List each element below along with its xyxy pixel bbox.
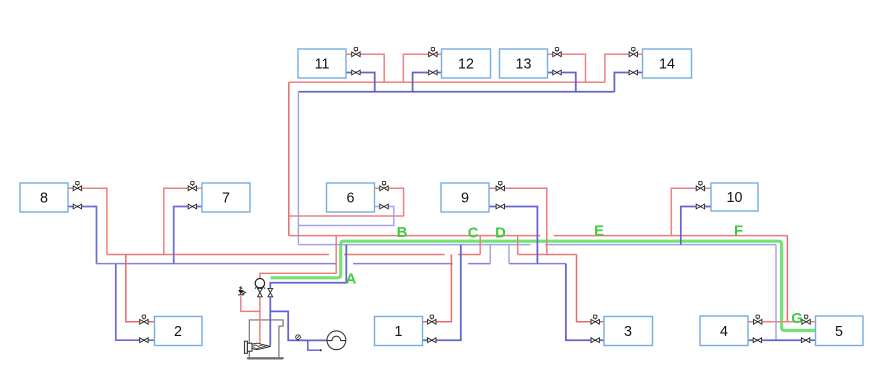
svg-text:6: 6 (347, 191, 355, 207)
supply pipe R12 (403, 54, 441, 82)
return main lower segment d (509, 263, 566, 265)
expansion vessel (327, 331, 346, 350)
return pipe R1 (423, 245, 461, 341)
boiler return drop to burner (269, 297, 271, 346)
boiler outline (249, 320, 283, 358)
supply main mid level right segment (554, 235, 788, 237)
svg-text:D: D (495, 225, 506, 241)
pump valve return (268, 288, 273, 296)
svg-text:1: 1 (395, 324, 403, 340)
lockshield valve R13 (553, 70, 561, 75)
svg-text:9: 9 (461, 191, 469, 207)
radiator R12 (442, 49, 491, 78)
return connector D (508, 245, 510, 264)
thermostatic valve R14 (629, 48, 637, 57)
thermostatic valve R9 (496, 182, 504, 191)
svg-text:4: 4 (720, 324, 728, 340)
svg-text:5: 5 (835, 324, 843, 340)
thermostatic valve R11 (352, 48, 360, 57)
return pipe R14 (614, 73, 642, 92)
lockshield valve R10 (696, 204, 704, 209)
return riser left (297, 92, 299, 245)
lockshield valve R14 (629, 70, 637, 75)
boiler supply drop to burner (259, 288, 261, 346)
svg-text:8: 8 (40, 191, 48, 207)
supply rail R4 R5 (748, 321, 816, 323)
burner flame (252, 343, 271, 350)
thermostatic valve R5 (802, 315, 810, 324)
radiator R4 (700, 316, 748, 346)
lockshield valve R12 (429, 70, 437, 75)
return pipe R7 (174, 207, 202, 264)
svg-text:B: B (397, 225, 408, 241)
drain end dot (320, 349, 322, 351)
supply pipe R2 (126, 255, 155, 322)
thermostatic valve R10 (696, 182, 704, 191)
svg-text:F: F (734, 224, 743, 240)
thermostatic valve R2 (140, 315, 148, 324)
return main mid level left segment (298, 244, 530, 246)
supply pipe R10 (671, 188, 711, 235)
supply pipe R8 (68, 188, 107, 254)
supply connector D (517, 236, 519, 255)
lockshield valve R1 (428, 338, 436, 343)
supply main lower segment a (107, 254, 329, 256)
radiator R13 (500, 49, 548, 78)
svg-text:2: 2 (174, 324, 182, 340)
thermostatic valve R7 (188, 182, 196, 191)
boiler supply riser (260, 236, 336, 279)
svg-text:14: 14 (659, 57, 675, 73)
burner motor cap (244, 341, 247, 353)
supply pipe R1 (423, 255, 452, 322)
lockshield valve R2 (140, 338, 148, 343)
thermostatic valve R1 (428, 315, 436, 324)
supply pipe R9 (489, 188, 547, 254)
return pipe R10 (681, 207, 711, 245)
supply pipe R3 (577, 255, 605, 322)
return pipe R2 (116, 264, 155, 341)
radiator R9 (441, 183, 489, 212)
safety valve (238, 287, 246, 295)
svg-text:13: 13 (516, 57, 532, 73)
pressure gauge (296, 335, 301, 340)
thermostatic valve R4 (754, 315, 762, 324)
supply pipe R6 (289, 188, 404, 216)
supply main mid level left segment (289, 235, 541, 237)
return main lower segment a (97, 263, 337, 265)
supply main lower segment b (344, 254, 445, 256)
boiler base (248, 357, 283, 359)
svg-text:12: 12 (458, 57, 474, 73)
return pipe R3 (566, 264, 604, 341)
svg-text:11: 11 (315, 57, 330, 73)
svg-text:10: 10 (727, 190, 743, 206)
svg-text:C: C (468, 225, 479, 241)
svg-text:G: G (791, 311, 803, 327)
return main lower segment b (353, 263, 453, 265)
radiator R8 (20, 183, 68, 212)
thermostatic valve R6 (380, 182, 388, 191)
return main mid level right segment (545, 244, 776, 246)
thermostatic valve R3 (591, 315, 599, 324)
thermostatic valve R13 (553, 48, 561, 57)
return pipe R11 (346, 73, 375, 92)
lockshield valve R3 (591, 338, 599, 343)
expansion pipe (270, 311, 327, 340)
return pipe R6 (298, 207, 393, 226)
drain pipe (308, 340, 320, 350)
supply pipe R11 (346, 54, 384, 82)
return riser R4 R5 (775, 245, 777, 341)
green index circuit pipe A-B-C-D-E-F-G (271, 241, 816, 330)
lockshield valve R7 (188, 204, 196, 209)
svg-text:3: 3 (624, 324, 632, 340)
supply main top row (289, 81, 605, 83)
pump (255, 279, 264, 288)
boiler return riser (270, 245, 346, 288)
supply connector C (479, 236, 481, 255)
radiator R14 (643, 49, 692, 78)
supply pipe R14 (605, 54, 643, 82)
radiator R3 (604, 317, 653, 346)
supply pipe R13 (548, 54, 586, 82)
pump valve supply (258, 288, 263, 296)
supply main lower segment c (458, 254, 480, 256)
thermostatic valve R12 (429, 48, 437, 57)
radiator R10 (711, 183, 758, 211)
radiator R2 (155, 317, 203, 346)
lockshield valve R9 (496, 204, 504, 209)
svg-text:E: E (594, 224, 604, 240)
radiator R7 (202, 183, 250, 212)
radiator R1 (375, 317, 423, 346)
return main lower segment c (468, 263, 490, 265)
return pipe R8 (68, 207, 97, 264)
radiator R6 (327, 183, 375, 212)
lockshield valve R6 (380, 204, 388, 209)
supply pipe R7 (164, 188, 202, 254)
return pipe R12 (413, 73, 442, 92)
return connector C (489, 245, 491, 264)
lockshield valve R5 (801, 338, 809, 343)
svg-text:7: 7 (222, 191, 230, 207)
lockshield valve R4 (753, 338, 761, 343)
return rail R4 R5 (748, 339, 816, 341)
svg-text:A: A (346, 271, 357, 287)
thermostatic valve R8 (73, 182, 81, 191)
radiator R11 (298, 49, 346, 78)
safety valve pipe (241, 296, 260, 311)
supply riser R4 R5 (786, 236, 788, 322)
return pipe R13 (548, 73, 576, 92)
supply main lower segment d (518, 254, 577, 256)
supply riser left (288, 82, 290, 235)
return main top row (298, 91, 614, 93)
radiator R5 (816, 316, 864, 346)
return pipe R9 (489, 207, 537, 264)
lockshield valve R11 (352, 70, 360, 75)
burner body (247, 343, 252, 351)
lockshield valve R8 (73, 204, 81, 209)
